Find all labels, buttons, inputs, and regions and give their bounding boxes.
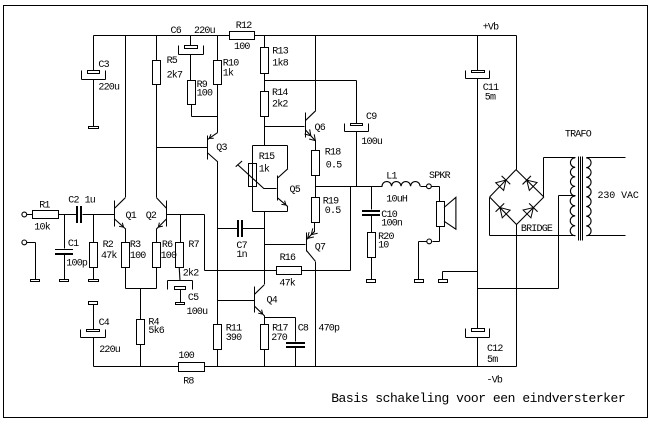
svg-text:Q1: Q1 [126,211,137,222]
svg-text:2k7: 2k7 [167,70,183,82]
svg-text:1n: 1n [236,250,247,261]
svg-text:R18: R18 [325,148,341,159]
svg-text:10k: 10k [34,221,50,233]
svg-text:Q5: Q5 [290,185,301,196]
svg-text:10: 10 [378,241,389,252]
svg-text:R3: R3 [130,240,141,251]
svg-text:1k: 1k [223,67,234,79]
svg-text:Q3: Q3 [216,143,227,154]
svg-text:Basis schakeling voor een eind: Basis schakeling voor een eindversterker [331,391,625,406]
svg-text:R8: R8 [183,377,194,388]
svg-text:100n: 100n [381,218,403,229]
svg-text:2k2: 2k2 [183,268,199,280]
svg-text:SPKR: SPKR [429,171,451,182]
svg-text:C2: C2 [68,196,79,207]
svg-text:2k2: 2k2 [272,98,288,110]
svg-text:Q4: Q4 [267,295,278,306]
svg-text:R16: R16 [280,253,296,264]
svg-text:100p: 100p [66,258,88,269]
svg-text:100: 100 [130,251,146,262]
svg-text:100u: 100u [361,137,383,148]
svg-text:5k6: 5k6 [148,325,164,337]
svg-text:5m: 5m [487,355,498,366]
svg-text:R1: R1 [39,201,50,212]
svg-text:R6: R6 [162,240,173,251]
svg-text:230 VAC: 230 VAC [598,191,639,202]
svg-text:10uH: 10uH [386,194,408,205]
svg-text:R12: R12 [236,21,252,32]
svg-text:C12: C12 [487,344,503,355]
svg-text:0.5: 0.5 [325,206,341,217]
svg-text:-Vb: -Vb [487,375,503,387]
svg-text:1k8: 1k8 [272,58,288,70]
svg-text:R2: R2 [103,240,114,251]
svg-text:1k: 1k [259,163,270,175]
svg-text:47k: 47k [101,250,117,262]
svg-text:C4: C4 [99,318,110,329]
svg-text:C1: C1 [68,239,79,250]
svg-text:C8: C8 [298,324,309,335]
svg-text:L1: L1 [386,172,397,183]
svg-text:Q6: Q6 [315,123,326,134]
svg-text:Q2: Q2 [146,211,157,222]
svg-text:C6: C6 [171,26,182,37]
svg-text:100u: 100u [187,307,209,318]
svg-text:470p: 470p [318,324,340,335]
svg-text:R7: R7 [188,240,199,251]
svg-text:100: 100 [197,89,213,100]
svg-text:100: 100 [161,251,177,262]
svg-text:+Vb: +Vb [483,22,499,34]
svg-text:R14: R14 [272,88,288,99]
svg-text:47k: 47k [279,278,295,290]
svg-text:100: 100 [178,351,194,362]
svg-text:1u: 1u [85,196,96,207]
svg-text:C9: C9 [366,112,377,123]
svg-text:R13: R13 [272,46,288,57]
svg-text:270: 270 [271,333,287,344]
svg-text:390: 390 [226,333,242,344]
svg-text:100: 100 [234,42,250,53]
svg-text:220u: 220u [194,26,216,37]
svg-text:R5: R5 [167,56,178,67]
svg-text:R15: R15 [259,152,275,163]
svg-text:TRAFO: TRAFO [565,130,592,141]
svg-text:BRIDGE: BRIDGE [521,224,553,235]
svg-text:Q7: Q7 [315,243,326,254]
svg-text:C5: C5 [188,293,199,304]
svg-text:5m: 5m [485,93,496,104]
svg-text:220u: 220u [98,83,120,94]
svg-text:C3: C3 [98,60,109,71]
svg-text:220u: 220u [99,345,121,356]
svg-text:0.5: 0.5 [326,161,342,172]
